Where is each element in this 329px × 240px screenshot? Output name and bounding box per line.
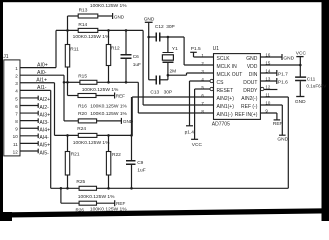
svg-text:1uF: 1uF: [137, 168, 145, 174]
svg-text:1uF: 1uF: [133, 62, 141, 68]
svg-text:R26: R26: [76, 208, 85, 213]
capacitor C12: [149, 36, 156, 38]
svg-text:R11: R11: [70, 46, 79, 52]
junction R14 row / C6: [125, 29, 128, 32]
svg-text:R13: R13: [79, 7, 88, 13]
svg-text:C9: C9: [137, 160, 143, 166]
junction R15 row / R12: [107, 81, 110, 84]
junction crystal bottom / C13: [167, 74, 170, 77]
wire AIN2- pin11 to bottom rail: [260, 96, 288, 98]
svg-text:p1.4: p1.4: [185, 130, 195, 136]
wire J1 pin6 stub: [20, 105, 38, 107]
resistor R15: [64, 81, 80, 83]
svg-text:P1.7: P1.7: [278, 71, 288, 77]
terminal p1.4 on CS: [189, 81, 191, 126]
svg-text:DRDY: DRDY: [243, 88, 258, 94]
svg-text:AI3-: AI3-: [39, 120, 49, 126]
svg-text:REF (-): REF (-): [241, 104, 258, 110]
svg-text:10: 10: [13, 134, 19, 139]
svg-text:AI1+: AI1+: [36, 78, 47, 84]
svg-text:4: 4: [15, 89, 18, 94]
bubble DRDY pin12: [261, 87, 264, 90]
wire MCLK OUT pin3: [187, 72, 214, 74]
svg-text:R20: R20: [78, 111, 87, 117]
wire C12 to MCLK IN: [183, 37, 185, 65]
resistor R11: [67, 30, 69, 44]
capacitor C9: [131, 97, 133, 160]
IC U1 AD7705 body: [214, 54, 261, 120]
svg-text:DIN: DIN: [249, 72, 258, 78]
junction R25 row / C9: [130, 187, 133, 190]
svg-text:REF: REF: [116, 93, 125, 98]
capacitor C11: [295, 77, 306, 80]
resistor R26: [60, 188, 62, 203]
wire J1 pin8 stub: [20, 120, 38, 122]
wire AIN1- pin8: [138, 112, 213, 114]
ground terminal at R20: [120, 118, 122, 124]
terminal VCC on RESET: [194, 89, 196, 139]
wire J1 pin10 stub: [20, 135, 38, 137]
svg-text:R15: R15: [78, 73, 87, 79]
wire J1 pin3 AI1+: [20, 82, 55, 84]
svg-text:AI5+: AI5+: [39, 143, 50, 149]
wire J1 pin1 AI0+: [20, 67, 56, 69]
connector J1: [4, 60, 20, 156]
junction R14 row / R12: [107, 29, 110, 32]
REF terminal at R16: [114, 93, 116, 99]
svg-text:AI0+: AI0+: [37, 63, 48, 69]
resistor R24: [55, 134, 79, 136]
wire DRDY pin12 stub: [264, 89, 278, 91]
junction C12 wire / crystal: [167, 36, 170, 39]
capacitor C13: [149, 79, 156, 81]
svg-text:AD7705: AD7705: [212, 121, 230, 127]
svg-text:R25: R25: [76, 179, 85, 185]
svg-text:R24: R24: [77, 126, 86, 132]
junction R25 row / R26 riser: [60, 187, 63, 190]
svg-text:30P: 30P: [166, 24, 175, 30]
svg-text:0.1uF63V: 0.1uF63V: [306, 83, 327, 88]
ground terminal at R13: [112, 13, 114, 19]
svg-text:AI4-: AI4-: [39, 135, 49, 141]
wire J1 pin4 AI1-: [20, 89, 51, 91]
svg-text:1: 1: [15, 66, 18, 71]
svg-text:REF IN(+): REF IN(+): [235, 112, 258, 118]
wire R13 riser: [67, 16, 69, 30]
wire DOUT pin13 to P1.6: [260, 80, 276, 82]
svg-text:C12: C12: [155, 24, 164, 30]
svg-text:6: 6: [15, 104, 18, 109]
svg-text:2M: 2M: [170, 69, 177, 75]
svg-text:AI4+: AI4+: [39, 128, 50, 134]
junction R15 row / pin2 drop: [63, 81, 66, 84]
wire VDD pin15: [260, 64, 300, 66]
border frame: [0, 0, 329, 2]
svg-text:100K0.125W 1%: 100K0.125W 1%: [90, 103, 127, 109]
bubble CS pin4: [210, 79, 213, 82]
svg-text:CS: CS: [217, 80, 225, 86]
wire MCLK IN pin2: [184, 64, 213, 66]
resistor R25 on AIN2- rail: [51, 187, 79, 189]
junction R15 row / C6: [125, 81, 128, 84]
svg-text:J1: J1: [3, 54, 9, 60]
svg-text:AIN1(-): AIN1(-): [217, 112, 233, 118]
svg-text:R16: R16: [78, 103, 87, 109]
svg-text:MCLK OUT: MCLK OUT: [217, 72, 243, 78]
svg-text:AIN1(+): AIN1(+): [217, 104, 235, 110]
wire RESET pin5: [195, 88, 210, 90]
wire J1 pin12 stub: [20, 150, 38, 152]
resistor R20: [64, 120, 78, 122]
svg-text:REF: REF: [116, 201, 125, 206]
resistor R16: [67, 82, 69, 95]
wire AI0- drop to R15 row: [63, 75, 65, 121]
svg-text:U1: U1: [213, 46, 220, 52]
ground under C11: [296, 96, 304, 98]
svg-text:100K0.125W 1%: 100K0.125W 1%: [90, 3, 127, 9]
svg-text:VCC: VCC: [296, 50, 307, 56]
svg-text:100K0.125W 1%: 100K0.125W 1%: [82, 87, 119, 93]
crystal Y1: [167, 37, 169, 52]
svg-text:C11: C11: [307, 76, 316, 82]
junction R24 row / R22: [107, 134, 110, 137]
junction R24 row / C9 riser: [130, 134, 133, 137]
svg-text:100K0.125W 1%: 100K0.125W 1%: [73, 34, 110, 40]
svg-text:GND: GND: [246, 56, 258, 62]
wire GND pin16: [260, 56, 282, 58]
wire AIN2+ pin6: [132, 96, 213, 98]
svg-text:P1.5: P1.5: [191, 46, 201, 52]
junction GND rail / C12: [147, 36, 150, 39]
svg-text:Y1: Y1: [172, 46, 178, 52]
resistor R22: [108, 135, 110, 151]
svg-text:11: 11: [13, 142, 18, 147]
REF terminal at R26: [114, 200, 116, 206]
svg-text:AI2-: AI2-: [39, 105, 49, 111]
svg-text:12: 12: [13, 149, 19, 154]
junction R15 row / R11: [66, 81, 69, 84]
ground terminal on pin10: [260, 104, 282, 106]
svg-text:SCLK: SCLK: [217, 56, 231, 62]
svg-text:2: 2: [15, 74, 18, 79]
svg-text:5: 5: [15, 96, 18, 101]
svg-text:8: 8: [15, 119, 18, 124]
resistor R12: [108, 30, 110, 44]
resistor R13: [68, 15, 79, 17]
svg-text:100K0.125W 1%: 100K0.125W 1%: [90, 111, 127, 117]
svg-text:30P: 30P: [164, 90, 173, 96]
svg-text:C6: C6: [133, 54, 139, 60]
wire AI0+ riser to R14 row: [55, 30, 57, 67]
wire J1 pin9 stub: [20, 127, 38, 129]
svg-text:GND: GND: [277, 136, 288, 142]
svg-text:3: 3: [15, 81, 18, 86]
wire AIN1+ pin7: [143, 104, 213, 106]
wire DIN pin14 to P1.7: [260, 72, 276, 74]
junction R25 row / R22: [107, 187, 110, 190]
svg-text:12: 12: [265, 84, 270, 89]
bubble RESET pin5: [210, 87, 213, 90]
wire J1 pin5 stub: [20, 97, 38, 99]
wire P1.5 to SCLK pin1: [194, 56, 214, 58]
svg-text:GND: GND: [114, 15, 125, 20]
svg-text:R22: R22: [112, 152, 121, 158]
svg-text:100K0.125W 1%: 100K0.125W 1%: [90, 207, 127, 213]
wire AI1+ drop to R24 row: [54, 83, 56, 136]
junction R25 row / R21: [66, 187, 69, 190]
svg-text:AI3+: AI3+: [39, 112, 50, 118]
capacitor C6: [125, 30, 127, 54]
terminal REF on pin9: [260, 112, 277, 114]
svg-text:DOUT: DOUT: [243, 80, 257, 86]
svg-text:AIN2(+): AIN2(+): [217, 96, 235, 102]
resistor R14: [56, 29, 78, 31]
wire crystal bottom to MCLK OUT: [168, 74, 187, 76]
svg-text:AIN2(-): AIN2(-): [241, 96, 257, 102]
svg-text:C13: C13: [150, 90, 159, 96]
junction R14 row / R13+R11: [66, 29, 69, 32]
svg-text:9: 9: [15, 127, 18, 132]
svg-text:MCLK IN: MCLK IN: [217, 64, 238, 70]
wire J1 pin7 stub: [20, 112, 38, 114]
svg-text:GND: GND: [295, 99, 306, 105]
svg-text:AI2+: AI2+: [39, 97, 50, 103]
svg-text:P1.6: P1.6: [278, 79, 288, 85]
wire CS pin4: [190, 80, 211, 82]
svg-text:AI5-: AI5-: [39, 150, 49, 156]
svg-text:R12: R12: [111, 46, 120, 52]
resistor R21: [67, 135, 69, 151]
svg-text:R14: R14: [78, 22, 87, 28]
svg-text:100K0.125W 1%: 100K0.125W 1%: [78, 194, 115, 200]
wire J1 pin11 stub: [20, 142, 38, 144]
junction R24 row / R21: [66, 134, 69, 137]
wire J1 pin2 AI0-: [20, 74, 64, 76]
svg-text:100K0.125W 1%: 100K0.125W 1%: [73, 140, 110, 146]
svg-text:REF: REF: [273, 121, 283, 127]
svg-text:AI1-: AI1-: [37, 85, 47, 91]
svg-text:AI0-: AI0-: [37, 70, 47, 76]
wire AI1- drop to R25 row: [50, 90, 52, 188]
svg-text:7: 7: [15, 111, 18, 116]
svg-text:VDD: VDD: [247, 64, 258, 70]
svg-text:VCC: VCC: [192, 142, 203, 148]
svg-text:GND: GND: [283, 56, 294, 62]
svg-text:R21: R21: [71, 152, 80, 158]
svg-text:RESET: RESET: [217, 88, 234, 94]
